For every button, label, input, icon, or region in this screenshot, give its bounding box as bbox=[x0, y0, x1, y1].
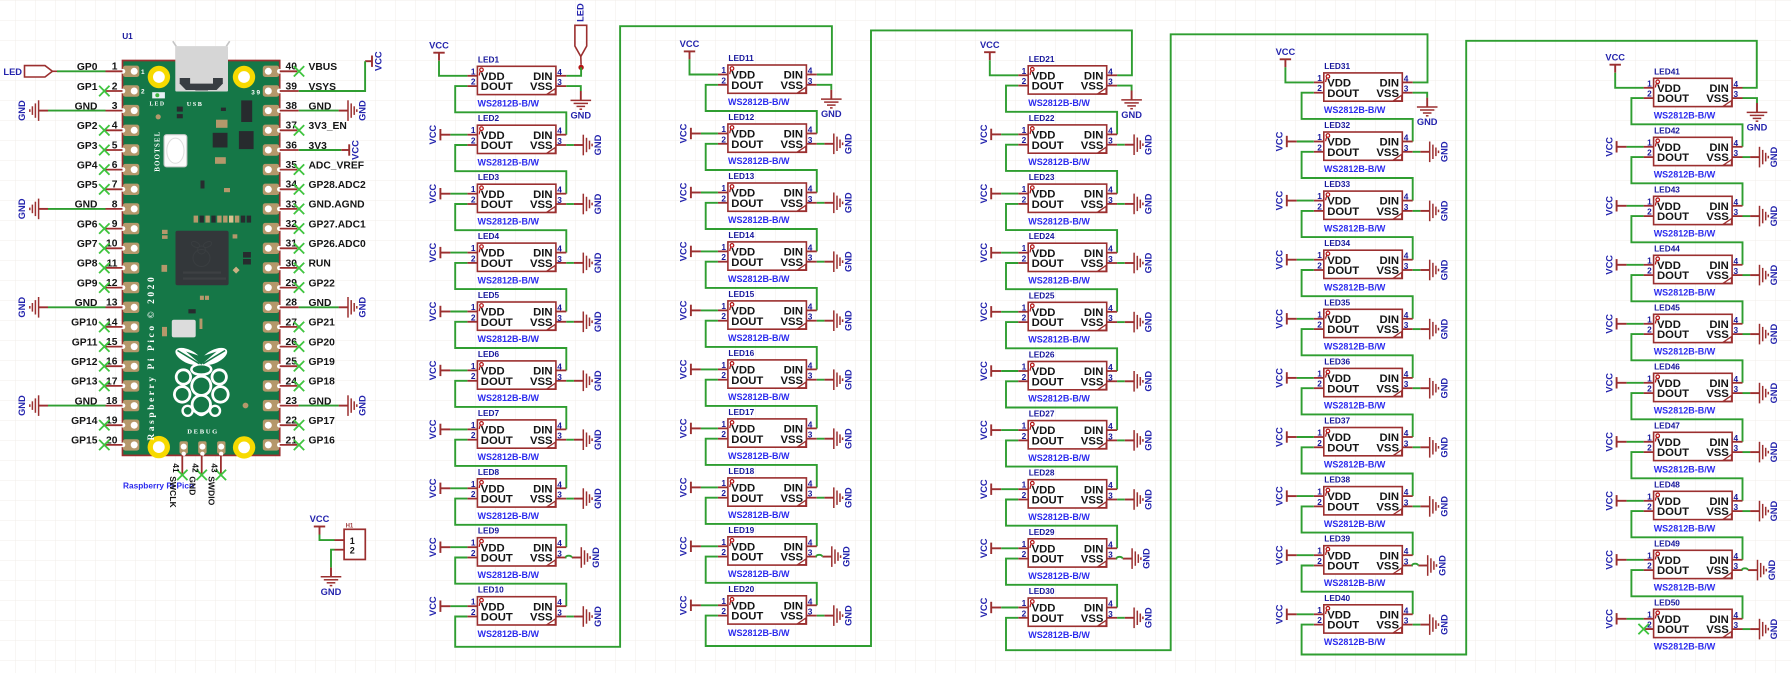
svg-text:GND: GND bbox=[843, 192, 853, 213]
svg-text:2: 2 bbox=[721, 547, 726, 557]
ground GND (LED11 VSS) bbox=[821, 90, 842, 119]
svg-text:VCC: VCC bbox=[1275, 191, 1285, 211]
svg-text:VCC: VCC bbox=[679, 595, 689, 615]
wire pin 38 to GND bbox=[299, 110, 339, 112]
pin 29 GP22 (U1 right) bbox=[280, 278, 335, 293]
svg-text:4: 4 bbox=[1108, 480, 1113, 490]
svg-text:4: 4 bbox=[808, 419, 813, 429]
wire LED33 VSS to GND bbox=[1413, 210, 1421, 212]
wire VCC to LED16 VDD bbox=[701, 368, 718, 370]
svg-text:GP19: GP19 bbox=[309, 357, 336, 368]
svg-text:Raspberry Pi Pico © 2020: Raspberry Pi Pico © 2020 bbox=[146, 275, 157, 441]
svg-text:LED17: LED17 bbox=[728, 407, 754, 417]
svg-text:1: 1 bbox=[471, 66, 476, 76]
svg-text:WS2812B-B/W: WS2812B-B/W bbox=[1324, 578, 1386, 588]
svg-text:GND: GND bbox=[321, 587, 342, 597]
svg-text:1: 1 bbox=[1022, 362, 1027, 372]
wire LED16 DOUT to LED17 DIN bbox=[706, 380, 817, 429]
wire VCC to LED32 VDD bbox=[1297, 141, 1314, 143]
svg-text:GND: GND bbox=[1767, 559, 1777, 580]
svg-text:4: 4 bbox=[1404, 73, 1409, 83]
svg-text:4: 4 bbox=[1734, 315, 1739, 325]
svg-text:1: 1 bbox=[471, 479, 476, 489]
svg-text:4: 4 bbox=[557, 538, 562, 548]
svg-text:GND: GND bbox=[841, 546, 851, 567]
svg-text:1: 1 bbox=[1022, 66, 1027, 76]
svg-text:WS2812B-B/W: WS2812B-B/W bbox=[1324, 401, 1386, 411]
svg-text:VSS: VSS bbox=[1706, 506, 1729, 518]
svg-text:3: 3 bbox=[557, 549, 562, 559]
svg-text:GND: GND bbox=[358, 100, 368, 121]
svg-text:VSS: VSS bbox=[530, 258, 553, 270]
svg-text:VSS: VSS bbox=[530, 317, 553, 329]
svg-text:DOUT: DOUT bbox=[1657, 270, 1689, 282]
power VCC (LED37 VDD) bbox=[1275, 427, 1297, 447]
svg-text:VSS: VSS bbox=[780, 80, 803, 92]
svg-text:VSS: VSS bbox=[780, 316, 803, 328]
svg-text:1: 1 bbox=[112, 62, 118, 73]
svg-text:1: 1 bbox=[1647, 609, 1652, 619]
LED LED33 WS2812B-B/W bbox=[1314, 179, 1413, 233]
wire VCC to LED36 VDD bbox=[1297, 377, 1314, 379]
svg-text:WS2812B-B/W: WS2812B-B/W bbox=[1028, 453, 1090, 463]
svg-text:4: 4 bbox=[1734, 79, 1739, 89]
svg-text:3: 3 bbox=[1734, 89, 1739, 99]
wire LED7 DOUT to LED8 DIN bbox=[455, 440, 566, 489]
svg-text:VSS: VSS bbox=[530, 553, 553, 565]
wire LED17 DOUT to LED18 DIN bbox=[706, 439, 817, 488]
svg-text:4: 4 bbox=[808, 66, 813, 76]
wire 3V3 pin 36 to VCC bbox=[299, 149, 342, 151]
svg-text:3: 3 bbox=[112, 101, 118, 112]
svg-text:4: 4 bbox=[1108, 362, 1113, 372]
svg-text:DOUT: DOUT bbox=[1657, 329, 1689, 341]
pin 23 GND (U1 right) bbox=[280, 396, 332, 407]
wire LED5 DOUT to LED6 DIN bbox=[455, 322, 566, 371]
svg-text:GND: GND bbox=[187, 476, 197, 495]
svg-text:8: 8 bbox=[112, 199, 118, 210]
svg-text:2: 2 bbox=[721, 193, 726, 203]
LED LED8 WS2812B-B/W bbox=[467, 467, 566, 521]
svg-text:LED8: LED8 bbox=[478, 467, 500, 477]
svg-text:3: 3 bbox=[557, 313, 562, 323]
svg-text:VSS: VSS bbox=[1706, 565, 1729, 577]
ground GND (U1 pin 38) bbox=[339, 100, 368, 121]
svg-text:VSS: VSS bbox=[1376, 502, 1399, 514]
svg-text:WS2812B-B/W: WS2812B-B/W bbox=[1654, 406, 1716, 416]
wire LED37 VSS to GND bbox=[1413, 446, 1421, 448]
svg-text:VSS: VSS bbox=[1376, 147, 1399, 159]
svg-text:GND: GND bbox=[1769, 323, 1779, 344]
svg-text:GND: GND bbox=[843, 133, 853, 154]
power VCC (LED18 VDD) bbox=[679, 477, 701, 497]
svg-text:LED16: LED16 bbox=[728, 348, 754, 358]
svg-text:GND: GND bbox=[17, 100, 27, 121]
svg-text:GND: GND bbox=[17, 395, 27, 416]
LED LED35 WS2812B-B/W bbox=[1314, 297, 1413, 351]
wire LED10 VSS to GND bbox=[566, 616, 574, 618]
wire LED21 VSS to GND bbox=[1117, 86, 1132, 91]
wire LED3 VSS to GND bbox=[566, 203, 574, 205]
svg-text:DOUT: DOUT bbox=[481, 81, 513, 93]
wire LED31 DOUT to LED32 DIN bbox=[1302, 93, 1413, 142]
svg-text:VCC: VCC bbox=[428, 537, 438, 557]
svg-text:VCC: VCC bbox=[979, 184, 989, 204]
svg-text:2: 2 bbox=[721, 488, 726, 498]
svg-text:2: 2 bbox=[1317, 497, 1322, 507]
svg-text:DOUT: DOUT bbox=[1657, 624, 1689, 636]
svg-text:2: 2 bbox=[471, 312, 476, 322]
wire LED29 VSS to GND bbox=[1115, 558, 1118, 560]
power VCC (LED4 VDD) bbox=[428, 243, 450, 263]
svg-text:DOUT: DOUT bbox=[481, 376, 513, 388]
ground GND (LED10 VSS) bbox=[574, 606, 603, 627]
svg-text:1: 1 bbox=[471, 243, 476, 253]
wire LED26 DOUT to LED27 DIN bbox=[1006, 381, 1117, 430]
ground GND (LED31 VSS) bbox=[1417, 98, 1438, 127]
svg-text:9: 9 bbox=[112, 219, 118, 230]
wire VCC to LED34 VDD bbox=[1297, 259, 1314, 261]
LED LED11 WS2812B-B/W bbox=[718, 53, 817, 107]
wire LED12 VSS to GND bbox=[817, 143, 825, 145]
svg-text:3: 3 bbox=[1108, 550, 1113, 560]
wire LED2 VSS to GND bbox=[566, 144, 574, 146]
svg-text:1: 1 bbox=[471, 538, 476, 548]
wire LED34 VSS to GND bbox=[1413, 269, 1421, 271]
power VCC (LED20 VDD) bbox=[679, 595, 701, 615]
svg-text:VCC: VCC bbox=[1276, 47, 1296, 57]
svg-text:GP2: GP2 bbox=[77, 121, 98, 132]
svg-text:LED47: LED47 bbox=[1654, 420, 1680, 430]
svg-text:3: 3 bbox=[1108, 609, 1113, 619]
svg-text:4: 4 bbox=[808, 301, 813, 311]
svg-text:VCC: VCC bbox=[351, 140, 361, 160]
svg-text:GP17: GP17 bbox=[309, 416, 336, 427]
svg-text:VCC: VCC bbox=[428, 478, 438, 498]
ground GND (LED15 VSS) bbox=[824, 310, 853, 331]
power VCC (LED15 VDD) bbox=[679, 300, 701, 320]
LED LED7 WS2812B-B/W bbox=[467, 408, 566, 462]
svg-text:2: 2 bbox=[1317, 615, 1322, 625]
wire VCC to LED9 VDD bbox=[450, 546, 467, 548]
LED LED18 WS2812B-B/W bbox=[718, 466, 817, 520]
no-connect X on LED50 DOUT bbox=[1644, 628, 1654, 630]
svg-text:LED40: LED40 bbox=[1324, 593, 1350, 603]
svg-text:DOUT: DOUT bbox=[1327, 502, 1359, 514]
svg-text:1: 1 bbox=[471, 361, 476, 371]
svg-text:LED30: LED30 bbox=[1029, 586, 1055, 596]
svg-text:DOUT: DOUT bbox=[731, 316, 763, 328]
pin 16 GP12 (U1 left) bbox=[71, 357, 122, 372]
svg-text:3: 3 bbox=[808, 607, 813, 617]
svg-text:WS2812B-B/W: WS2812B-B/W bbox=[728, 156, 790, 166]
svg-text:GND: GND bbox=[821, 109, 842, 119]
power VCC (LED39 VDD) bbox=[1275, 545, 1297, 565]
pin 42 GND (U1 bottom) bbox=[187, 455, 207, 495]
ground GND (LED16 VSS) bbox=[824, 369, 853, 390]
svg-text:LED39: LED39 bbox=[1324, 534, 1350, 544]
wire VCC to LED44 VDD bbox=[1627, 264, 1644, 266]
svg-text:36: 36 bbox=[286, 140, 298, 151]
svg-text:1: 1 bbox=[1022, 184, 1027, 194]
svg-text:4: 4 bbox=[1404, 428, 1409, 438]
svg-text:4: 4 bbox=[808, 360, 813, 370]
ground GND (U1 pin 8) bbox=[17, 198, 48, 219]
svg-text:3: 3 bbox=[808, 548, 813, 558]
wire LED20 VSS to GND bbox=[817, 615, 825, 617]
svg-text:VSS: VSS bbox=[1081, 140, 1104, 152]
pin 4 GP2 (U1 left) bbox=[77, 121, 123, 136]
ground GND (LED35 VSS) bbox=[1420, 318, 1449, 339]
wire LED4 DOUT to LED5 DIN bbox=[455, 263, 566, 312]
LED LED40 WS2812B-B/W bbox=[1314, 593, 1413, 647]
svg-text:4: 4 bbox=[1404, 310, 1409, 320]
svg-text:LED36: LED36 bbox=[1324, 356, 1350, 366]
svg-text:4: 4 bbox=[1108, 66, 1113, 76]
svg-text:LED12: LED12 bbox=[728, 112, 754, 122]
wire LED46 DOUT to LED47 DIN bbox=[1631, 393, 1742, 442]
svg-text:2: 2 bbox=[1022, 194, 1027, 204]
wire LED24 DOUT to LED25 DIN bbox=[1006, 263, 1117, 312]
svg-text:LED18: LED18 bbox=[728, 466, 754, 476]
svg-text:VCC: VCC bbox=[1604, 550, 1614, 570]
ground GND (U1 pin 23) bbox=[339, 395, 368, 416]
svg-text:VSS: VSS bbox=[1706, 388, 1729, 400]
LED LED10 WS2812B-B/W bbox=[467, 585, 566, 639]
wire LED40 DOUT to LED41 DIN (column link) bbox=[1302, 41, 1757, 655]
svg-text:WS2812B-B/W: WS2812B-B/W bbox=[1654, 288, 1716, 298]
svg-text:1: 1 bbox=[1022, 480, 1027, 490]
svg-text:2: 2 bbox=[1317, 261, 1322, 271]
svg-text:2: 2 bbox=[471, 77, 476, 87]
svg-text:3: 3 bbox=[1404, 320, 1409, 330]
svg-text:3: 3 bbox=[557, 254, 562, 264]
wire LED36 VSS to GND bbox=[1413, 387, 1421, 389]
svg-text:3: 3 bbox=[1404, 202, 1409, 212]
svg-text:VCC: VCC bbox=[428, 596, 438, 616]
svg-text:VCC: VCC bbox=[979, 538, 989, 558]
LED LED24 WS2812B-B/W bbox=[1018, 231, 1117, 285]
svg-text:3 9: 3 9 bbox=[251, 90, 260, 97]
ground GND (LED49 VSS) bbox=[1748, 559, 1777, 580]
svg-text:LED10: LED10 bbox=[478, 585, 504, 595]
svg-text:VSS: VSS bbox=[530, 140, 553, 152]
svg-text:1: 1 bbox=[1022, 243, 1027, 253]
svg-text:GND: GND bbox=[1769, 441, 1779, 462]
wire LED30 DOUT to LED31 DIN (column link) bbox=[1006, 34, 1428, 650]
svg-text:4: 4 bbox=[1734, 433, 1739, 443]
svg-text:DOUT: DOUT bbox=[481, 435, 513, 447]
svg-text:1: 1 bbox=[1317, 309, 1322, 319]
svg-text:GND: GND bbox=[1439, 437, 1449, 458]
ground GND (LED42 VSS) bbox=[1750, 146, 1779, 167]
wire VCC to LED13 VDD bbox=[701, 192, 718, 194]
wire VCC to LED27 VDD bbox=[1001, 429, 1018, 431]
svg-text:4: 4 bbox=[557, 303, 562, 313]
svg-text:2: 2 bbox=[1647, 148, 1652, 158]
svg-text:LED49: LED49 bbox=[1654, 538, 1680, 548]
svg-text:2: 2 bbox=[1022, 135, 1027, 145]
svg-text:VSS: VSS bbox=[780, 139, 803, 151]
svg-text:VCC: VCC bbox=[428, 301, 438, 321]
svg-text:DOUT: DOUT bbox=[1327, 265, 1359, 277]
svg-text:VCC: VCC bbox=[679, 477, 689, 497]
svg-text:VSS: VSS bbox=[530, 435, 553, 447]
svg-text:LED13: LED13 bbox=[728, 171, 754, 181]
svg-text:2: 2 bbox=[721, 252, 726, 262]
wire VCC to LED12 VDD bbox=[701, 133, 718, 135]
pin 24 GP18 (U1 right) bbox=[280, 376, 335, 391]
svg-text:GP7: GP7 bbox=[77, 239, 98, 250]
pin 41 SWCLK (U1 bottom) bbox=[168, 455, 188, 508]
LED LED48 WS2812B-B/W bbox=[1644, 479, 1743, 533]
svg-text:LED28: LED28 bbox=[1029, 468, 1055, 478]
svg-text:WS2812B-B/W: WS2812B-B/W bbox=[1028, 216, 1090, 226]
svg-text:WS2812B-B/W: WS2812B-B/W bbox=[478, 216, 540, 226]
ground GND (LED36 VSS) bbox=[1420, 378, 1449, 399]
svg-text:38: 38 bbox=[286, 101, 298, 112]
svg-text:3: 3 bbox=[1108, 491, 1113, 501]
svg-text:1: 1 bbox=[141, 69, 145, 76]
power VCC (LED3 VDD) bbox=[428, 184, 450, 204]
LED LED39 WS2812B-B/W bbox=[1314, 534, 1413, 588]
ground GND (LED47 VSS) bbox=[1750, 441, 1779, 462]
svg-text:3: 3 bbox=[557, 608, 562, 618]
svg-text:GND: GND bbox=[1769, 618, 1779, 639]
svg-text:VCC: VCC bbox=[979, 479, 989, 499]
wire VCC to LED45 VDD bbox=[1627, 323, 1644, 325]
wire VCC to LED23 VDD bbox=[1001, 193, 1018, 195]
svg-text:3: 3 bbox=[1404, 497, 1409, 507]
svg-text:VCC: VCC bbox=[979, 243, 989, 263]
ground GND (LED30 VSS) bbox=[1125, 607, 1154, 628]
power VCC (H1 pin 1) bbox=[310, 514, 330, 534]
wire LED19 VSS to GND bbox=[815, 556, 818, 558]
svg-text:4: 4 bbox=[808, 537, 813, 547]
pin 35 ADC_VREF (U1 right) bbox=[280, 160, 364, 175]
svg-text:VSS: VSS bbox=[1376, 620, 1399, 632]
svg-text:3: 3 bbox=[1404, 261, 1409, 271]
svg-text:1: 1 bbox=[1317, 487, 1322, 497]
svg-text:LED2: LED2 bbox=[478, 113, 500, 123]
svg-text:WS2812B-B/W: WS2812B-B/W bbox=[1654, 229, 1716, 239]
svg-text:DOUT: DOUT bbox=[731, 80, 763, 92]
svg-text:WS2812B-B/W: WS2812B-B/W bbox=[728, 333, 790, 343]
svg-text:VSS: VSS bbox=[1081, 436, 1104, 448]
svg-text:WS2812B-B/W: WS2812B-B/W bbox=[1324, 223, 1386, 233]
svg-text:GND: GND bbox=[1769, 146, 1779, 167]
wire LED29 DOUT to LED30 DIN bbox=[1006, 559, 1117, 608]
svg-text:LED11: LED11 bbox=[728, 53, 754, 63]
power VCC (LED40 VDD) bbox=[1275, 604, 1297, 624]
svg-text:4: 4 bbox=[1734, 610, 1739, 620]
svg-text:GP20: GP20 bbox=[309, 337, 336, 348]
svg-text:GP9: GP9 bbox=[77, 278, 98, 289]
ground GND (H1 pin 2) bbox=[321, 567, 342, 596]
svg-text:4: 4 bbox=[1108, 421, 1113, 431]
power VCC (LED7 VDD) bbox=[428, 419, 450, 439]
svg-text:WS2812B-B/W: WS2812B-B/W bbox=[478, 99, 540, 109]
svg-text:2: 2 bbox=[721, 134, 726, 144]
wire LED11 DOUT to LED12 DIN bbox=[706, 85, 817, 134]
wire LED24 VSS to GND bbox=[1117, 262, 1125, 264]
svg-text:GND: GND bbox=[1144, 193, 1154, 214]
power VCC (LED50 VDD) bbox=[1604, 609, 1626, 629]
svg-text:3: 3 bbox=[1108, 195, 1113, 205]
svg-text:1: 1 bbox=[471, 420, 476, 430]
svg-text:1: 1 bbox=[350, 536, 355, 546]
svg-text:GND: GND bbox=[1144, 252, 1154, 273]
wire LED9 DOUT to LED10 DIN bbox=[455, 558, 566, 607]
pin 31 GP26.ADC0 (U1 right) bbox=[280, 239, 366, 254]
svg-text:VSS: VSS bbox=[1706, 329, 1729, 341]
svg-text:WS2812B-B/W: WS2812B-B/W bbox=[1028, 512, 1090, 522]
wire LED44 DOUT to LED45 DIN bbox=[1631, 275, 1742, 324]
svg-text:VSS: VSS bbox=[1706, 152, 1729, 164]
wire LED8 DOUT to LED9 DIN bbox=[455, 499, 566, 548]
svg-text:GP22: GP22 bbox=[309, 278, 336, 289]
svg-text:1: 1 bbox=[1317, 73, 1322, 83]
svg-text:2: 2 bbox=[1647, 207, 1652, 217]
svg-text:GND: GND bbox=[1439, 378, 1449, 399]
svg-text:DOUT: DOUT bbox=[1032, 81, 1064, 93]
svg-text:1: 1 bbox=[1647, 78, 1652, 88]
ground GND (LED40 VSS) bbox=[1420, 614, 1449, 635]
svg-text:DOUT: DOUT bbox=[1032, 317, 1064, 329]
svg-text:DOUT: DOUT bbox=[1032, 258, 1064, 270]
pin 32 GP27.ADC1 (U1 right) bbox=[280, 219, 366, 234]
svg-text:VCC: VCC bbox=[428, 360, 438, 380]
svg-text:VSS: VSS bbox=[1081, 199, 1104, 211]
svg-text:WS2812B-B/W: WS2812B-B/W bbox=[1324, 460, 1386, 470]
svg-text:1: 1 bbox=[721, 242, 726, 252]
LED LED1 WS2812B-B/W bbox=[467, 54, 566, 108]
svg-text:4: 4 bbox=[557, 185, 562, 195]
wire LED41 DOUT to LED42 DIN bbox=[1631, 98, 1742, 147]
svg-text:DOUT: DOUT bbox=[481, 494, 513, 506]
svg-text:DOUT: DOUT bbox=[1327, 561, 1359, 573]
wire LED40 VSS to GND bbox=[1413, 624, 1421, 626]
svg-text:LED: LED bbox=[575, 3, 585, 22]
svg-text:18: 18 bbox=[106, 396, 118, 407]
svg-text:VCC: VCC bbox=[680, 39, 700, 49]
svg-text:GP5: GP5 bbox=[77, 180, 98, 191]
ground GND (LED48 VSS) bbox=[1750, 500, 1779, 521]
wire VCC to LED19 VDD bbox=[701, 545, 718, 547]
svg-text:LED22: LED22 bbox=[1029, 113, 1055, 123]
svg-text:13: 13 bbox=[106, 298, 118, 309]
svg-text:VSS: VSS bbox=[1376, 383, 1399, 395]
svg-text:DOUT: DOUT bbox=[731, 375, 763, 387]
net flag LED (to LED1 DIN) bbox=[575, 3, 587, 65]
svg-text:VCC: VCC bbox=[679, 418, 689, 438]
LED LED34 WS2812B-B/W bbox=[1314, 238, 1413, 292]
power VCC (LED36 VDD) bbox=[1275, 368, 1297, 388]
svg-text:LED23: LED23 bbox=[1029, 172, 1055, 182]
svg-text:RUN: RUN bbox=[309, 259, 331, 270]
pin 26 GP20 (U1 right) bbox=[280, 337, 335, 352]
ground GND (LED17 VSS) bbox=[824, 428, 853, 449]
wire LED23 VSS to GND bbox=[1117, 203, 1125, 205]
wire LED27 VSS to GND bbox=[1117, 439, 1125, 441]
LED LED30 WS2812B-B/W bbox=[1018, 586, 1117, 640]
ground GND (LED26 VSS) bbox=[1125, 371, 1154, 392]
power VCC (LED28 VDD) bbox=[979, 479, 1001, 499]
svg-text:2: 2 bbox=[112, 81, 118, 92]
svg-text:2: 2 bbox=[141, 89, 145, 96]
svg-text:WS2812B-B/W: WS2812B-B/W bbox=[1028, 335, 1090, 345]
svg-text:1: 1 bbox=[471, 184, 476, 194]
